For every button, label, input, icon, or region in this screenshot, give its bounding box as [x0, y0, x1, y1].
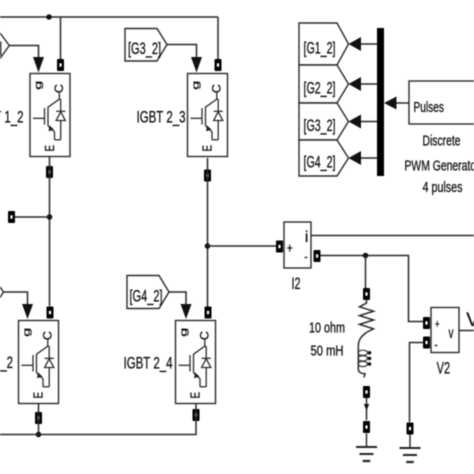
arrowhead into gate of IGBT 2_3	[191, 57, 202, 73]
wire: stub to left edge port	[15, 216, 50, 218]
svg-text:IGBT 2_3: IGBT 2_3	[137, 108, 186, 127]
wire: demux out 2	[361, 83, 378, 85]
Discrete PWM Generator block	[409, 81, 474, 124]
pin: I2 - port	[314, 250, 321, 262]
svg-text:-: -	[434, 337, 438, 352]
wire: demux out 1	[361, 43, 378, 45]
wire: Pulses to demux	[396, 102, 409, 104]
pin: IGBT 1_2 C port	[57, 59, 64, 71]
svg-text:[G4_2]: [G4_2]	[304, 153, 336, 172]
pin: RL branch top port	[363, 288, 370, 300]
pin: IGBT 2_2 C port	[47, 307, 54, 319]
svg-text:50 mH: 50 mH	[311, 344, 344, 360]
arrowhead into gate of IGBT 1_2	[33, 57, 44, 73]
IGBT 2_3 (top-right)	[188, 74, 228, 157]
pin: V2 - port	[423, 337, 430, 349]
svg-text:I2: I2	[292, 274, 301, 293]
inductor L (50 mH)	[358, 333, 366, 378]
wire: G4_2 tag to IGBT 2_4 gate	[169, 292, 186, 305]
svg-text:Discrete: Discrete	[423, 133, 461, 150]
connection arrow on wire	[364, 404, 369, 411]
wire: midpoint to I2 + input	[208, 245, 277, 247]
IGBT 1_2 (top-left)	[30, 74, 70, 157]
IGBT 2_4 (bottom-right)	[176, 321, 216, 404]
Goto tag G4_2 (demux output)	[299, 140, 349, 176]
wire: right bridge midpoint rail	[207, 158, 209, 307]
wire: G3_2 tag to IGBT 2_3 gate	[167, 45, 197, 59]
svg-text:[G3_2]: [G3_2]	[128, 39, 161, 58]
svg-text:V: V	[466, 310, 474, 331]
svg-text:+: +	[287, 240, 293, 255]
arrowhead into gate of IGBT 2_4	[181, 304, 192, 319]
svg-text:[G2_2]: [G2_2]	[304, 79, 336, 98]
svg-text:[G4_2]: [G4_2]	[130, 287, 163, 306]
svg-text:]: ]	[0, 40, 2, 57]
pin: IGBT 2_3 C port	[215, 59, 222, 71]
Goto tag G3_2 (demux output)	[299, 103, 349, 140]
demux bar	[377, 28, 384, 176]
svg-text:PWM Generator: PWM Generator	[405, 158, 474, 175]
IGBT 2_2 (bottom-left)	[19, 321, 59, 404]
svg-text:v: v	[449, 325, 454, 342]
node: right midpoint junction	[205, 243, 211, 249]
wire: drop to IGBT 2_3 collector	[217, 17, 219, 60]
svg-text:V2: V2	[437, 359, 451, 378]
node: load branch junction	[363, 253, 369, 259]
svg-text:IGBT 2_4: IGBT 2_4	[124, 354, 173, 373]
node: left midpoint junction	[47, 214, 53, 220]
wire: V2 - to ground B	[410, 343, 424, 423]
node: bottom rail junction	[36, 432, 42, 438]
svg-text:10 ohm: 10 ohm	[309, 321, 345, 337]
wire: I2 current signal output	[311, 235, 474, 237]
wire: tag to IGBT 2_2 gate	[4, 292, 28, 305]
wire: drop to IGBT 1_2 collector	[60, 17, 62, 60]
From tag (cut) into IGBT 1_2 gate	[0, 33, 9, 59]
pin: I2 + port	[276, 241, 283, 253]
resistor R (10 ohm)	[360, 300, 374, 333]
svg-text:-: -	[304, 249, 308, 264]
wire: V2 voltage output	[459, 330, 474, 332]
wire: demux out 4	[361, 157, 378, 159]
wire: tag to IGBT 1_2 gate	[9, 46, 38, 59]
pin: RL branch bottom port	[363, 386, 370, 398]
wire: left bridge midpoint rail	[49, 157, 51, 306]
From tag G4_2	[127, 276, 169, 309]
Goto tag G2_2	[299, 65, 349, 103]
pin: IGBT 1_2 E port	[46, 166, 53, 178]
wire: demux out 3	[361, 121, 378, 123]
wire: RL to ground A	[366, 398, 368, 420]
wire: bottom rail	[0, 404, 196, 435]
pin: V2 + port	[423, 317, 430, 329]
pin: IGBT 2_3 E port	[204, 170, 211, 182]
node: junction on top rail	[46, 14, 52, 20]
pin: ground A port	[363, 421, 370, 433]
From tag (cut) into IGBT 2_2 gate	[0, 287, 4, 298]
From tag G3_2	[125, 29, 167, 62]
svg-text:IGBT 1_2: IGBT 1_2	[0, 108, 24, 127]
current measurement I2	[284, 222, 311, 268]
svg-text:+: +	[435, 316, 440, 331]
wire: top DC rail	[0, 16, 218, 18]
svg-text:IGBT 2_2: IGBT 2_2	[0, 353, 13, 372]
pin: IGBT 2_4 C port	[205, 307, 212, 319]
wire: IGBT 2_2 emitter to bottom rail	[38, 404, 40, 435]
ground A	[356, 434, 377, 462]
Goto tag G1_2	[299, 23, 349, 65]
pin: IGBT 2_4 E port	[193, 409, 200, 421]
svg-text:Pulses: Pulses	[414, 99, 445, 116]
svg-text:i: i	[305, 229, 309, 246]
svg-text:[G1_2]: [G1_2]	[304, 39, 336, 58]
svg-text:4 pulses: 4 pulses	[423, 179, 463, 196]
svg-text:[G3_2]: [G3_2]	[304, 116, 336, 135]
wire: junction down to RL branch	[365, 256, 367, 291]
arrowhead into gate of IGBT 2_2	[22, 304, 33, 319]
ground B	[400, 435, 421, 463]
wire: I2 - to load and V2	[321, 256, 424, 322]
voltage measurement V2	[431, 308, 459, 353]
pin: ground B port	[407, 423, 414, 435]
pin: IGBT 2_2 E port	[35, 412, 42, 424]
pin: left edge measurement port	[8, 211, 15, 223]
